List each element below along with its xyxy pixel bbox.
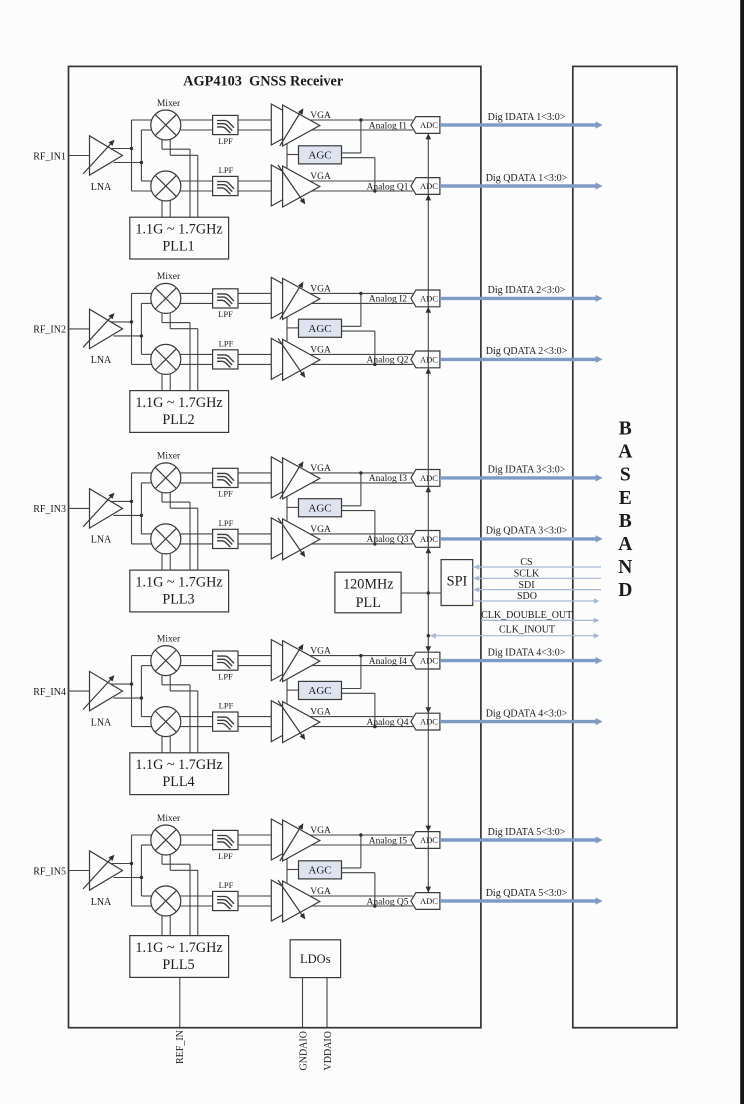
svg-text:LPF: LPF [218,136,233,146]
svg-text:LPF: LPF [219,338,234,348]
svg-text:LPF: LPF [218,671,233,681]
svg-text:Dig IDATA 2<3:0>: Dig IDATA 2<3:0> [488,285,566,296]
svg-text:Dig QDATA 2<3:0>: Dig QDATA 2<3:0> [486,346,568,357]
svg-text:1.1G ~ 1.7GHz: 1.1G ~ 1.7GHz [135,395,222,411]
svg-text:LPF: LPF [219,518,234,528]
svg-text:Mixer: Mixer [157,634,181,644]
svg-text:AGC: AGC [308,323,331,335]
svg-text:AGC: AGC [308,149,331,161]
svg-text:A: A [618,442,632,463]
svg-text:PLL3: PLL3 [162,591,194,607]
svg-text:Dig IDATA 1<3:0>: Dig IDATA 1<3:0> [488,112,566,123]
svg-text:Analog I3: Analog I3 [369,474,408,484]
svg-text:SDO: SDO [517,591,537,602]
svg-text:Analog I1: Analog I1 [369,121,408,131]
svg-text:VGA: VGA [310,464,331,474]
svg-text:CS: CS [520,557,532,568]
svg-text:Mixer: Mixer [157,272,181,282]
svg-text:PLL5: PLL5 [162,957,194,973]
svg-text:SPI: SPI [447,574,468,590]
svg-text:LNA: LNA [91,897,112,908]
svg-text:VGA: VGA [310,826,331,836]
svg-text:RF_IN4: RF_IN4 [33,687,66,698]
svg-text:VGA: VGA [310,111,331,121]
svg-text:LDOs: LDOs [300,952,331,966]
svg-text:RF_IN1: RF_IN1 [33,151,66,162]
svg-text:PLL2: PLL2 [162,412,194,428]
svg-text:SDI: SDI [518,580,534,591]
svg-text:Analog Q2: Analog Q2 [367,356,409,366]
svg-text:LNA: LNA [91,535,112,546]
svg-text:N: N [618,557,632,578]
svg-text:LPF: LPF [219,880,234,890]
svg-text:ADC: ADC [420,181,438,191]
svg-text:ADC: ADC [420,656,438,666]
svg-text:AGC: AGC [308,864,331,876]
svg-text:Analog Q3: Analog Q3 [367,535,409,545]
svg-text:120MHz: 120MHz [343,577,393,593]
svg-text:D: D [618,580,632,601]
svg-text:ADC: ADC [420,473,438,483]
svg-text:VGA: VGA [310,647,331,657]
svg-text:Dig QDATA 4<3:0>: Dig QDATA 4<3:0> [486,708,568,719]
svg-text:LPF: LPF [218,851,233,861]
svg-text:ADC: ADC [420,717,438,727]
svg-text:REF_IN: REF_IN [175,1030,186,1064]
svg-text:Mixer: Mixer [157,452,181,462]
svg-text:LPF: LPF [219,701,234,711]
svg-text:Dig IDATA 4<3:0>: Dig IDATA 4<3:0> [488,647,566,658]
svg-text:LPF: LPF [219,165,234,175]
svg-text:PLL4: PLL4 [162,774,194,790]
svg-text:Dig IDATA 5<3:0>: Dig IDATA 5<3:0> [488,827,566,838]
svg-text:1.1G ~ 1.7GHz: 1.1G ~ 1.7GHz [135,221,222,237]
svg-text:1.1G ~ 1.7GHz: 1.1G ~ 1.7GHz [135,574,222,590]
svg-text:VDDAIO: VDDAIO [323,1031,334,1070]
svg-text:PLL: PLL [356,595,381,611]
svg-text:1.1G ~ 1.7GHz: 1.1G ~ 1.7GHz [135,757,222,773]
svg-text:B: B [619,511,632,532]
svg-text:Analog Q5: Analog Q5 [367,897,409,907]
svg-text:Dig QDATA 1<3:0>: Dig QDATA 1<3:0> [486,173,568,184]
svg-text:Mixer: Mixer [157,99,181,109]
svg-text:Analog I4: Analog I4 [369,657,408,667]
svg-text:GNDAIO: GNDAIO [298,1031,309,1070]
svg-text:ADC: ADC [420,120,438,130]
svg-text:ADC: ADC [420,835,438,845]
svg-text:AGP4103 GNSS Receiver: AGP4103 GNSS Receiver [183,74,344,90]
svg-text:CLK_DOUBLE_OUT: CLK_DOUBLE_OUT [481,610,572,621]
svg-text:B: B [619,419,632,440]
svg-text:VGA: VGA [310,172,331,182]
svg-text:RF_IN3: RF_IN3 [33,504,66,515]
svg-text:Mixer: Mixer [157,814,181,824]
svg-text:LNA: LNA [91,355,112,366]
svg-text:VGA: VGA [310,887,331,897]
svg-text:ADC: ADC [420,294,438,304]
svg-text:Analog I2: Analog I2 [369,295,408,305]
svg-text:Analog I5: Analog I5 [369,836,408,846]
svg-text:ADC: ADC [420,896,438,906]
svg-text:E: E [619,488,632,509]
svg-text:LNA: LNA [91,182,112,193]
svg-text:PLL1: PLL1 [162,238,194,254]
svg-text:Dig QDATA 5<3:0>: Dig QDATA 5<3:0> [486,888,568,899]
svg-text:Analog Q4: Analog Q4 [367,718,409,728]
svg-text:LPF: LPF [218,309,233,319]
svg-text:ADC: ADC [420,534,438,544]
svg-text:RF_IN5: RF_IN5 [33,866,66,877]
svg-text:VGA: VGA [310,284,331,294]
svg-text:Dig QDATA 3<3:0>: Dig QDATA 3<3:0> [486,526,568,537]
svg-text:VGA: VGA [310,525,331,535]
svg-text:ADC: ADC [420,355,438,365]
svg-text:CLK_INOUT: CLK_INOUT [499,624,555,635]
svg-text:AGC: AGC [308,685,331,697]
svg-text:AGC: AGC [308,502,331,514]
svg-text:LPF: LPF [218,489,233,499]
svg-text:VGA: VGA [310,708,331,718]
svg-text:RF_IN2: RF_IN2 [33,325,66,336]
svg-text:LNA: LNA [91,717,112,728]
svg-text:1.1G ~ 1.7GHz: 1.1G ~ 1.7GHz [135,940,222,956]
svg-text:Dig IDATA 3<3:0>: Dig IDATA 3<3:0> [488,465,566,476]
svg-text:A: A [618,534,632,555]
svg-text:SCLK: SCLK [514,569,540,580]
svg-text:VGA: VGA [310,345,331,355]
svg-text:S: S [620,465,631,486]
svg-text:Analog Q1: Analog Q1 [367,182,409,192]
